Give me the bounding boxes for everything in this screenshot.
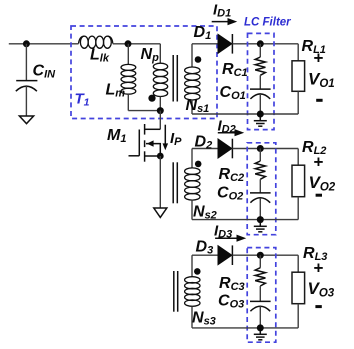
node LC3 bottom xyxy=(257,324,264,331)
winding Ns2 xyxy=(185,149,200,220)
core xyxy=(173,55,177,102)
wire output2 bottom xyxy=(192,219,298,221)
dot Np polarity xyxy=(148,95,155,102)
inductor Llk xyxy=(79,36,113,48)
current ID2 arrow xyxy=(218,129,244,136)
label minus3 xyxy=(315,305,321,308)
wire D3 to load xyxy=(232,254,298,256)
svg-text:+: + xyxy=(314,152,324,171)
wire primary bottom xyxy=(128,110,160,112)
node LC3 top xyxy=(257,252,264,259)
label minus1 xyxy=(316,99,322,102)
resistor RL3 xyxy=(292,255,305,328)
wire output1 bottom xyxy=(192,113,298,115)
winding Ns1 xyxy=(185,44,200,114)
wire source to ground xyxy=(159,156,161,208)
node LC2 bottom xyxy=(257,216,264,223)
svg-text:+: + xyxy=(314,49,324,68)
wire CIN lead xyxy=(25,44,27,81)
winding Np xyxy=(153,44,167,111)
LC filter box 1 xyxy=(248,33,275,129)
ground M1 xyxy=(154,208,167,217)
label minus2 xyxy=(316,194,322,197)
current IP arrow xyxy=(163,125,169,151)
capacitor CIN xyxy=(16,81,38,116)
svg-text:+: + xyxy=(314,258,324,277)
wire Ns3 to D3 xyxy=(192,254,218,256)
capacitor CO1 xyxy=(250,89,271,114)
current ID3 arrow xyxy=(215,235,246,242)
inductor Lm xyxy=(121,44,136,111)
transistor M1 xyxy=(129,111,164,162)
ground LC1 xyxy=(254,117,267,126)
winding Ns3 xyxy=(185,255,200,328)
capacitor CO3 xyxy=(250,301,271,328)
diode D3 xyxy=(218,245,232,265)
diode D2 xyxy=(218,139,232,159)
transformer T1 box xyxy=(71,26,217,119)
wire Ns1 to D1 xyxy=(192,43,218,45)
node LC1 bottom xyxy=(257,111,264,118)
node drain xyxy=(157,107,164,114)
wire Llk to Np xyxy=(113,43,161,45)
wire input top xyxy=(9,43,79,45)
node A xyxy=(125,40,132,47)
dot Ns2 polarity xyxy=(195,161,202,168)
resistor RC2 xyxy=(255,149,265,193)
ground xyxy=(19,116,33,124)
current ID1 arrow xyxy=(212,18,238,25)
wire D2 to load xyxy=(232,148,298,150)
capacitor CO2 xyxy=(250,193,271,220)
resistor RL2 xyxy=(292,149,305,220)
resistor RL1 xyxy=(292,44,305,114)
LC filter box 2 xyxy=(247,143,276,235)
wire output3 bottom xyxy=(192,327,298,329)
core 2 xyxy=(173,162,177,203)
svg-text:LC Filter: LC Filter xyxy=(244,16,291,28)
resistor RC3 xyxy=(255,255,265,301)
ground LC2 xyxy=(254,223,267,232)
dot Ns1 polarity xyxy=(195,56,202,63)
dot Ns3 polarity xyxy=(194,268,201,275)
node input xyxy=(23,40,30,47)
node LC2 top xyxy=(257,145,264,152)
node LC1 top xyxy=(257,40,264,47)
wire D1 to load xyxy=(232,43,298,45)
diode D1 xyxy=(218,34,232,54)
ground LC3 xyxy=(254,331,267,340)
resistor RC1 xyxy=(255,44,265,89)
core 3 xyxy=(174,271,178,312)
wire Ns2 to D2 xyxy=(192,148,218,150)
LC filter box 3 xyxy=(247,248,276,343)
